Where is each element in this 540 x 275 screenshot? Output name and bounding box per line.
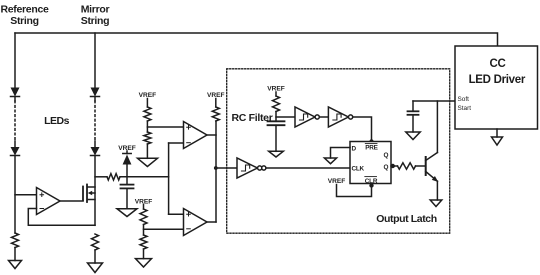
resistor R7 divider2 bottom xyxy=(140,235,147,249)
CC LED Driver box xyxy=(455,46,538,129)
wire VREF to R9 xyxy=(275,92,277,96)
wire ref string below D1 xyxy=(14,97,16,102)
inverter U4 schmitt xyxy=(295,107,319,127)
wire op-amp feedback xyxy=(28,209,95,226)
wire divider node xyxy=(146,121,148,132)
ground CC box xyxy=(492,137,503,145)
wire ref string above D2 xyxy=(14,141,16,147)
flip-flop U7 xyxy=(350,142,391,185)
node Qbar junction dot xyxy=(391,164,395,168)
wire mirror dotted xyxy=(94,101,96,141)
inverter U6 schmitt xyxy=(237,158,262,178)
wire RC node to inverter U4 xyxy=(276,116,295,118)
transistor M1 MOSFET xyxy=(83,185,95,203)
svg-text:CLK: CLK xyxy=(352,165,365,172)
op-amp U1 xyxy=(37,188,61,215)
wire R7 to ground xyxy=(143,249,145,259)
svg-text:Q: Q xyxy=(384,152,389,159)
resistor R9 RC filter xyxy=(273,96,280,112)
LED D1 reference xyxy=(11,88,20,97)
resistor R1 reference string xyxy=(12,233,19,247)
svg-text:Reference: Reference xyxy=(0,4,49,16)
svg-text:RC Filter: RC Filter xyxy=(231,112,272,124)
wire collector up xyxy=(436,101,438,153)
LED D3 mirror xyxy=(91,88,100,97)
resistor R2 mirror source xyxy=(92,234,99,250)
wire top rail xyxy=(15,33,498,46)
svg-text:LED Driver: LED Driver xyxy=(469,74,526,86)
svg-text:Output Latch: Output Latch xyxy=(376,213,437,225)
svg-text:D: D xyxy=(352,146,357,153)
node Reference String label xyxy=(0,4,49,28)
wire to op-amp + input xyxy=(15,194,37,196)
svg-text:Mirror: Mirror xyxy=(81,4,110,16)
ground D pin xyxy=(324,158,336,164)
wire U4 to U5 xyxy=(319,116,328,118)
node open circle after U6 xyxy=(262,166,266,170)
wire R1 to ground xyxy=(14,248,16,261)
wire U3 output xyxy=(207,221,216,223)
resistor R6 divider2 top xyxy=(140,209,147,225)
capacitor C3 soft-start xyxy=(408,101,419,132)
wire CC box ground stem xyxy=(496,129,498,137)
resistor R3 sense xyxy=(107,174,120,180)
wire rail to bottom comp + input xyxy=(169,213,184,215)
wire VREF to R6 xyxy=(143,205,145,210)
wire node to comparator - xyxy=(144,228,184,230)
ground ref string xyxy=(9,261,22,269)
wire rail to top comp - input xyxy=(169,142,184,144)
wire divider2 node xyxy=(143,225,145,236)
wire R10 to base xyxy=(416,165,426,167)
inverter U5 schmitt xyxy=(328,107,352,127)
wire U5 to PRE xyxy=(353,117,372,142)
wire R9 to node xyxy=(275,112,277,122)
node rail junction dot xyxy=(214,166,218,170)
wire U2 output xyxy=(207,134,216,136)
svg-text:String: String xyxy=(10,15,39,27)
LED D2 reference xyxy=(11,147,20,156)
node CLR junction dot xyxy=(369,183,373,187)
comparator U2 top xyxy=(184,122,208,149)
wire VREF to R8 xyxy=(215,99,217,108)
wire CLR to VREF xyxy=(337,184,372,197)
wire VREF to R4 xyxy=(146,99,148,108)
wire rail to inverter U6 xyxy=(216,167,237,169)
resistor R5 divider bottom xyxy=(144,132,151,144)
resistor R10 base xyxy=(398,163,416,169)
wire sense to comparators xyxy=(120,176,169,178)
wire emitter down xyxy=(436,181,438,200)
dashed box output latch region xyxy=(227,69,450,233)
capacitor C2 RC filter xyxy=(268,121,285,151)
wire U6 to CLK xyxy=(266,167,350,169)
wire node to comparator + xyxy=(147,126,183,128)
wire reference string upper xyxy=(14,33,16,87)
transistor Q1 xyxy=(426,153,439,183)
capacitor C1 sense xyxy=(121,177,134,209)
wire mirror string upper xyxy=(94,33,96,87)
ground soft-start cap xyxy=(406,132,420,140)
ground emitter xyxy=(430,200,442,207)
svg-text:LEDs: LEDs xyxy=(44,115,70,127)
ground top divider xyxy=(138,158,158,166)
svg-text:Start: Start xyxy=(458,105,472,112)
ground sense cap xyxy=(117,209,137,217)
svg-text:CC: CC xyxy=(489,58,505,70)
resistor R8 pull-up xyxy=(212,107,219,121)
wire comparator output rail xyxy=(215,121,217,222)
wire window rail xyxy=(168,143,170,214)
wire mirror above D4 xyxy=(94,141,96,147)
svg-text:Soft: Soft xyxy=(458,96,470,103)
ground RC filter xyxy=(269,151,284,157)
diode D5 clamp xyxy=(123,151,132,177)
wire soft-start node xyxy=(413,100,455,102)
wire R5 to ground xyxy=(146,144,148,158)
ground mirror string xyxy=(88,263,103,273)
LED D4 mirror xyxy=(91,147,100,156)
wire D to ground xyxy=(331,148,351,159)
ground bottom divider xyxy=(136,259,152,267)
wire ref string dotted xyxy=(14,101,16,141)
svg-text:PRE: PRE xyxy=(365,145,378,152)
wire Qbar to base resistor xyxy=(391,165,398,167)
wire sense node xyxy=(95,176,107,178)
resistor R4 divider top xyxy=(144,107,151,121)
wire R2 to ground xyxy=(94,250,96,263)
node Mirror String label xyxy=(81,4,110,28)
svg-text:Q: Q xyxy=(384,164,389,171)
svg-text:String: String xyxy=(81,15,110,27)
node PRE junction dot xyxy=(369,139,373,143)
comparator U3 bottom xyxy=(184,209,208,236)
wire mirror below D3 xyxy=(94,97,96,102)
wire op-amp output to gate xyxy=(60,200,83,202)
wire ref string lower xyxy=(14,156,16,234)
wire mirror to MOSFET drain xyxy=(94,156,96,226)
